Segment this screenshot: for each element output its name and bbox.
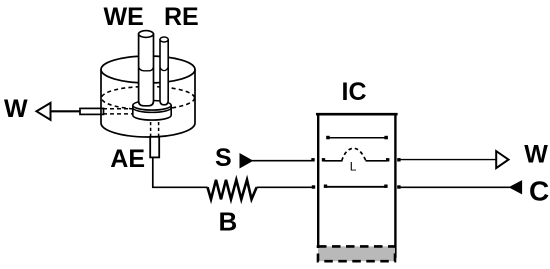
L loop hump (dashed)	[342, 148, 366, 161]
W right open arrow	[496, 151, 508, 168]
wire IC to C arrow	[400, 186, 510, 188]
electrode puck inside cell	[133, 101, 171, 121]
IC internal row 2 (S channel with L loop)	[311, 148, 400, 161]
C filled arrow	[510, 181, 522, 194]
S filled arrow	[240, 154, 252, 168]
cell cylinder walls	[100, 70, 102, 124]
wire S to IC box	[252, 160, 315, 162]
W outlet tube stub	[80, 108, 104, 114]
wire AE to resistor	[153, 157, 208, 187]
gray dashed zone at IC bottom	[318, 246, 395, 261]
W left open arrow	[37, 103, 51, 120]
svg-text:RE: RE	[164, 3, 199, 31]
wire arrow to tube	[51, 110, 81, 112]
svg-text:S: S	[215, 144, 232, 172]
wire resistor to IC box	[257, 186, 315, 188]
svg-text:B: B	[219, 207, 238, 237]
svg-text:AE: AE	[110, 145, 145, 173]
svg-text:C: C	[529, 176, 549, 207]
svg-text:W: W	[4, 95, 28, 123]
IC internal row 1 (top channel)	[326, 136, 388, 140]
IC internal row 3 (B-C channel)	[312, 185, 401, 189]
AE tube below cell	[150, 137, 159, 158]
resistor B	[208, 180, 257, 200]
WE electrode tube	[139, 31, 154, 106]
RE electrode tube	[160, 37, 168, 105]
liquid level dashed ellipse	[102, 87, 195, 110]
hidden AE tube inside cell (dashed)	[151, 122, 159, 137]
IC box	[316, 113, 398, 258]
cell cylinder bottom front arc	[101, 123, 195, 137]
hidden W outlet tube (dashed)	[103, 109, 134, 114]
svg-text:WE: WE	[104, 3, 144, 31]
svg-text:W: W	[524, 141, 548, 169]
cell top ellipse (mouth)	[101, 56, 195, 83]
svg-text:IC: IC	[342, 78, 367, 106]
wire IC to W right arrow	[400, 159, 495, 161]
svg-text:L: L	[350, 160, 357, 174]
